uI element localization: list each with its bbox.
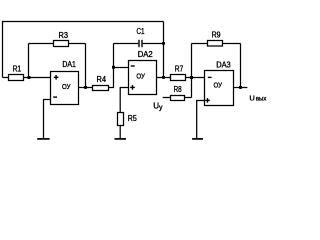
svg-text:R7: R7 <box>175 64 184 73</box>
svg-text:R4: R4 <box>97 75 107 84</box>
node: DA1 output / R3 junction <box>84 86 87 89</box>
wire: R3 left horizontal <box>29 43 54 45</box>
svg-text:DA1: DA1 <box>62 60 76 69</box>
wire: DA2 output to R7 <box>157 77 171 79</box>
capacitor C1 plates <box>138 40 140 47</box>
svg-text:R3: R3 <box>59 31 69 40</box>
op-amp DA1 body <box>51 72 79 105</box>
node: DA2 output junction <box>162 76 165 79</box>
node: C1 / top feedback junction <box>162 42 165 45</box>
svg-text:C1: C1 <box>137 27 145 36</box>
wire: DA1 inverting input to ground <box>44 100 51 139</box>
resistor R1 <box>9 75 24 81</box>
wire: top feedback bus <box>2 21 164 23</box>
resistor R9 <box>208 41 223 47</box>
wire: R9 right drop to DA3 output <box>240 44 242 88</box>
wire: stub into R1 <box>3 77 9 79</box>
svg-text:ОУ: ОУ <box>62 84 71 91</box>
op-amp DA3 body <box>205 71 234 106</box>
op-amp DA2 body <box>129 61 157 95</box>
wire: left vertical drop to input row <box>2 22 4 78</box>
wire: R9 right horizontal <box>223 43 241 45</box>
resistor R3 <box>54 41 69 47</box>
wire: summing node column (R9 riser above, R8 below) <box>191 44 193 98</box>
wire: DA1 output to R4 <box>79 87 93 89</box>
pin: DA1 - sign <box>53 96 57 98</box>
svg-text:ОУ: ОУ <box>214 82 223 89</box>
wire: R9 left horizontal <box>192 43 208 45</box>
wire: R4 to DA2 inverting node riser <box>109 68 114 88</box>
wire: DA2 non-inverting input elbow down to R5 <box>120 88 128 113</box>
node: DA2 inverting / C1 / R4 junction <box>112 66 115 69</box>
wire: feedback column to DA2 output node <box>163 44 165 78</box>
svg-text:R9: R9 <box>212 30 221 39</box>
svg-text:R1: R1 <box>13 64 22 73</box>
wire: DA3 non-inverting input to ground <box>197 101 205 139</box>
wire: R7 to DA3 inverting input <box>186 77 205 79</box>
node: R1 / R3 / DA1+ junction <box>27 76 30 79</box>
wire: feedback column top segment <box>163 22 165 44</box>
wire: C1 left riser <box>113 44 115 68</box>
wire: DA3 output stub to Uout <box>234 87 248 89</box>
wire: DA2 inverting input <box>114 67 129 69</box>
wire: R3 right horizontal <box>69 43 86 45</box>
wire: R8 right lead <box>185 97 192 99</box>
node: R7 / R8 / R9 / DA3- summing junction <box>190 76 193 79</box>
resistor R8 <box>171 96 185 101</box>
svg-text:R8: R8 <box>174 85 182 94</box>
pin: DA2 + sign <box>130 85 135 90</box>
wire: C1 left horizontal <box>114 43 139 45</box>
pin: DA2 - sign <box>131 65 135 67</box>
ground: DA3 non-inverting input <box>192 138 203 140</box>
svg-text:DA3: DA3 <box>216 61 231 70</box>
wire: R8 left lead (Uy input terminal) <box>163 97 171 99</box>
node: DA3 output / R9 junction <box>239 86 242 89</box>
wire: R1 to DA1 + input <box>24 77 51 79</box>
resistor R7 <box>171 75 186 81</box>
wire: R3 right riser down to DA1 output node <box>85 44 87 88</box>
pin: DA3 + sign <box>205 98 210 103</box>
svg-text:ОУ: ОУ <box>136 74 145 81</box>
resistor R5 <box>118 113 124 126</box>
wire: R5 to ground <box>119 126 121 139</box>
ground: DA1 inverting input <box>37 138 49 140</box>
svg-text:DA2: DA2 <box>138 50 154 59</box>
pin: DA1 + sign <box>54 75 59 80</box>
wire: R3 left riser <box>28 44 30 78</box>
resistor R4 <box>93 86 109 91</box>
ground: R5 <box>115 138 127 140</box>
wire: C1 right horizontal to feedback column <box>143 43 164 45</box>
pin: DA3 - sign <box>208 76 212 78</box>
svg-text:R5: R5 <box>128 114 137 123</box>
